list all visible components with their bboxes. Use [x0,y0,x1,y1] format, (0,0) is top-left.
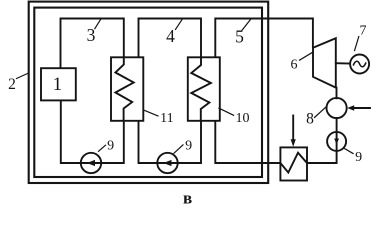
wire: line through circle 9 down and left into heat exchanger [307,132,337,163]
separator circle 8 [327,98,347,118]
tick for label 9 right [345,149,353,154]
svg-text:7: 7 [360,23,367,38]
pump circle 9 (right) [327,132,346,151]
wire: loop 5 steam line to turbine [215,19,313,58]
heat exchanger U10 coil zigzag [191,57,211,121]
svg-text:в: в [183,189,192,208]
pump 9 (right) down arrowhead [334,139,339,145]
turbine 6 trapezoid [313,38,336,87]
pump 9a arrowhead [87,160,95,166]
tick for label 9b [174,145,183,153]
tick for label 6 [300,52,314,60]
wire: turbine shaft to generator [336,62,350,64]
tick for label 5 [242,19,251,30]
svg-text:6: 6 [291,58,298,73]
arrow: coolant inlet into circle 8 [354,107,370,109]
heat exchanger U11 body [111,57,143,121]
svg-text:10: 10 [236,111,250,126]
wire: loop 5 bottom feed line from HX10 right pipe out through walls to heat exchanger [215,121,280,163]
pump 9a circle [81,153,101,173]
svg-text:9: 9 [107,139,114,154]
svg-text:1: 1 [53,74,63,95]
generator 7 circle [350,55,369,74]
wire: outer enclosure wall (reactor containment, item 2) [29,2,269,183]
tick for label 2 [17,73,29,79]
tick for label 11 [144,110,158,116]
svg-text:9: 9 [355,150,362,165]
wire: inner enclosure wall [34,8,262,177]
wire: turbine exhaust down to condensate circle 8 [336,88,338,99]
pump 9b arrowhead [163,160,171,166]
tick for label 3 [95,19,101,29]
svg-text:2: 2 [8,76,16,93]
tick for label 4 [176,19,183,30]
node: box 1 (reactor) [41,68,76,100]
generator 7 sine symbol [354,61,366,67]
arrow: heat flow down into condenser [292,116,294,140]
svg-text:9: 9 [185,139,192,154]
pump 9b circle [157,153,177,173]
svg-text:3: 3 [87,25,96,45]
heat exchanger (condenser) box bottom right [280,147,307,180]
svg-text:4: 4 [166,26,175,46]
label ticks [17,19,359,154]
wire: loop 3 top pipe (box1 top to HX11 left pipe) [61,19,124,69]
heat exchanger U11 coil zigzag [115,57,133,121]
svg-text:5: 5 [235,26,244,46]
wire: loop 4 bottom pipe [139,121,202,163]
svg-text:8: 8 [306,111,314,128]
svg-text:11: 11 [160,111,173,126]
tick for label 9a [99,145,106,151]
wire: loop 3 bottom pipe (box1 bottom, through pump, to HX11 left pipe bottom) [61,100,124,163]
condenser zigzag [280,153,307,173]
wire: circle 8 to circle 9 [336,118,338,132]
heat exchanger U10 body [188,57,220,121]
tick for label 7 [355,37,359,51]
wire: loop 4 top pipe (HX11 right pipe to HX10 left pipe) [139,19,202,58]
tick for label 10 [219,108,234,115]
tick for label 8 [315,107,327,118]
